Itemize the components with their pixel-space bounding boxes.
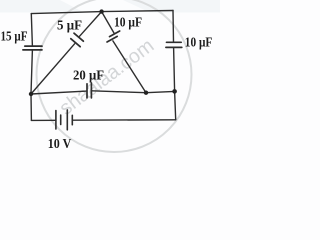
wire left vertical lower	[31, 50, 32, 94]
wire middle left segment	[31, 91, 87, 94]
wire bottom left lead to battery	[31, 119, 56, 121]
capacitor C4 5uF upper plate	[74, 33, 83, 41]
battery V1 plate long 2	[66, 110, 68, 130]
wire right diagonal lower segment	[113, 41, 146, 93]
capacitor C3 20uF left plate	[86, 84, 88, 98]
top tint strip	[0, 0, 220, 13]
capacitor C1 15uF lower plate	[23, 49, 42, 51]
svg-text:15 μF: 15 μF	[1, 29, 28, 44]
svg-text:10 μF: 10 μF	[185, 35, 213, 50]
battery V1 plate short 2	[71, 115, 73, 124]
svg-text:5 μF: 5 μF	[57, 19, 82, 34]
wire bottom right lead from battery	[72, 119, 175, 121]
node D right	[172, 89, 177, 94]
capacitor C2 10uF right upper plate	[167, 41, 182, 43]
wire left diagonal lower segment	[31, 44, 75, 94]
wire right vertical lower	[174, 48, 175, 92]
wire left drop to bottom	[30, 94, 32, 120]
wire left vertical upper	[31, 14, 32, 46]
capacitor C1 15uF upper plate	[25, 45, 42, 47]
battery V1 plate long 1	[55, 111, 57, 129]
battery V1 plate short 1	[60, 115, 62, 125]
wire middle right segment	[92, 91, 175, 93]
capacitor C4 5uF lower plate	[71, 39, 80, 47]
capacitor C2 10uF right lower plate	[166, 46, 182, 48]
wire top: TL corner to apex to TR corner	[31, 11, 173, 14]
node B bottom left	[29, 92, 33, 96]
svg-text:10 V: 10 V	[48, 137, 72, 152]
wire right drop	[175, 91, 176, 119]
watermark circle	[37, 0, 192, 152]
node C diagonal foot	[144, 91, 148, 95]
svg-text:10 μF: 10 μF	[114, 15, 142, 30]
node A apex	[99, 9, 103, 13]
wire right vertical upper	[172, 11, 175, 43]
wire left diagonal upper segment	[80, 12, 102, 37]
capacitor C5 10uF diag lower plate	[107, 36, 117, 42]
capacitor C5 10uF diag upper plate	[110, 31, 120, 37]
capacitor C3 20uF right plate	[90, 83, 92, 98]
wire right diagonal upper segment	[102, 12, 114, 33]
svg-text:20 μF: 20 μF	[73, 69, 104, 84]
